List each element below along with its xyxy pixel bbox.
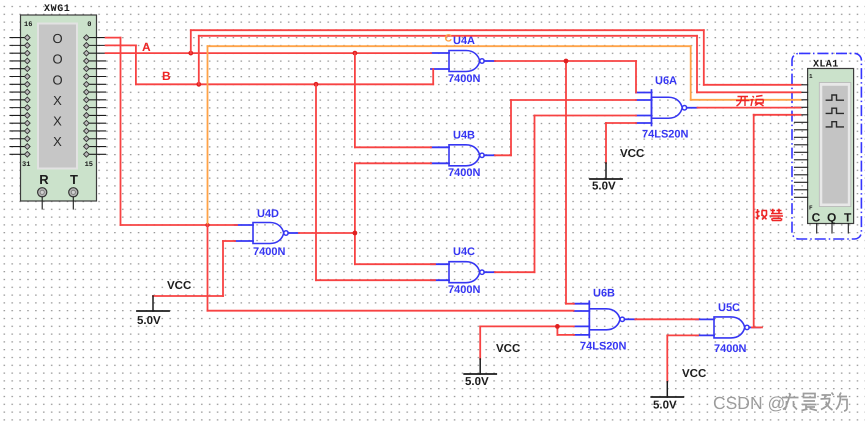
svg-text:7400N: 7400N [448, 284, 480, 296]
wire U5C output to XLA1 pin5 [752, 115, 801, 328]
svg-text:16: 16 [24, 21, 32, 29]
svg-text:31: 31 [22, 161, 30, 169]
logic analyzer XLA1 [792, 53, 861, 239]
svg-text:5.0V: 5.0V [653, 400, 677, 412]
svg-text:5.0V: 5.0V [592, 181, 616, 193]
svg-text:VCC: VCC [496, 343, 520, 355]
svg-text:XWG1: XWG1 [44, 4, 70, 15]
node U4D output junction [353, 231, 358, 236]
nand gate U5C 7400N [696, 302, 760, 355]
svg-text:5.0V: 5.0V [137, 315, 161, 327]
svg-text:U4C: U4C [453, 246, 475, 258]
nand gate U4A 7400N [431, 35, 495, 85]
svg-text:U4A: U4A [453, 35, 475, 47]
nand gate U4C 7400N [431, 246, 495, 296]
wire net C branch down to U6B input2 [208, 225, 574, 311]
wire VCC4 to U5C input2 [667, 335, 698, 381]
svg-text:C: C [812, 211, 821, 225]
watermark CSDN [713, 393, 847, 414]
label alarm [756, 209, 784, 221]
label B [162, 69, 171, 83]
power VCC1 5.0V [137, 280, 191, 327]
wire net C from XWG1 pin0 to U4D input1 [106, 38, 237, 225]
wire U4D output to U4B input2 and U4C input1 [299, 163, 435, 264]
svg-text:7400N: 7400N [448, 167, 480, 179]
svg-text:U4B: U4B [453, 130, 475, 142]
svg-text:O: O [52, 73, 62, 88]
nand gate U4D 7400N [235, 208, 299, 258]
wire net B branch down to U4C input2 [316, 84, 435, 280]
word generator XWG1 [10, 4, 106, 209]
wire VCC2 to U6B input3 input4 [480, 326, 574, 359]
wire U6B output to U5C input1 [635, 318, 698, 320]
svg-text:0: 0 [87, 21, 91, 29]
power VCC3 5.0V [590, 148, 644, 193]
nand gate U6B 74LS20N [574, 288, 636, 353]
svg-text:5.0V: 5.0V [465, 376, 489, 388]
svg-text:U6B: U6B [593, 288, 615, 300]
svg-text:U6A: U6A [655, 75, 677, 87]
wire net A branch down to U4B input1 [355, 53, 431, 147]
svg-text:CSDN @: CSDN @ [713, 393, 785, 413]
wire net B from XWG1 pin1 [106, 45, 434, 84]
label C [445, 33, 453, 45]
wire VCC1 to U4D input2 [153, 241, 235, 296]
wire U6A output to XLA1 pin4 [698, 107, 801, 109]
svg-text:T: T [70, 172, 78, 187]
svg-text:T: T [844, 211, 852, 225]
nand gate U4B 7400N [431, 130, 495, 180]
label unlock [736, 96, 764, 107]
svg-text:7400N: 7400N [253, 246, 285, 258]
svg-text:X: X [53, 114, 62, 129]
svg-text:X: X [53, 93, 62, 108]
svg-text:C: C [445, 33, 453, 45]
power VCC2 5.0V [464, 343, 520, 388]
wire net A from XWG1 pin2 to U4A input1 [106, 52, 431, 54]
svg-text:74LS20N: 74LS20N [642, 129, 689, 141]
svg-text:74LS20N: 74LS20N [580, 341, 627, 353]
wire net B branch to XLA1 pin2 [199, 36, 801, 93]
node A junction [188, 51, 193, 56]
node B junction up-branch [196, 82, 201, 87]
node U4A output junction [564, 59, 569, 64]
wire net A branch up [191, 30, 801, 85]
node C junction [205, 223, 209, 227]
svg-text:VCC: VCC [620, 148, 644, 160]
svg-text:U4D: U4D [257, 208, 279, 220]
nand gate U6A 74LS20N [636, 75, 698, 141]
svg-text:R: R [39, 172, 49, 187]
svg-text:X: X [53, 134, 62, 149]
node A junction 2 [353, 51, 358, 56]
svg-text:Q: Q [827, 211, 836, 225]
svg-text:U5C: U5C [718, 302, 740, 314]
svg-text:VCC: VCC [682, 368, 706, 380]
svg-text:7400N: 7400N [714, 343, 746, 355]
svg-text:VCC: VCC [167, 280, 191, 292]
svg-text:O: O [52, 31, 62, 46]
wire U4A output to U6A input1 and U6B input1 [495, 61, 636, 304]
wire net C orange branch to XLA1 pin3 [208, 46, 801, 225]
power VCC4 5.0V [651, 368, 706, 412]
node B junction down-branch [314, 82, 319, 87]
svg-text:15: 15 [85, 161, 93, 169]
svg-text:A: A [142, 40, 151, 54]
wire U4B output to U6A input2 [495, 100, 636, 155]
svg-text:1: 1 [809, 73, 813, 80]
wire U4C output to U6A input3 [495, 116, 636, 273]
label A [142, 40, 151, 54]
svg-text:B: B [162, 69, 171, 83]
wire VCC3 to U6A input4 [606, 123, 636, 163]
node U6B input3 junction [555, 324, 560, 329]
svg-text:7400N: 7400N [448, 73, 480, 85]
svg-text:O: O [52, 51, 62, 66]
